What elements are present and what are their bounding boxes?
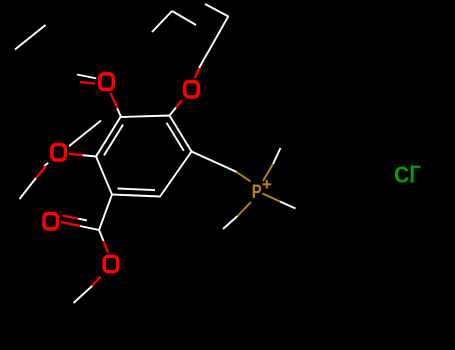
- svg-text:Cl: Cl: [394, 161, 415, 187]
- svg-text:P: P: [252, 181, 262, 202]
